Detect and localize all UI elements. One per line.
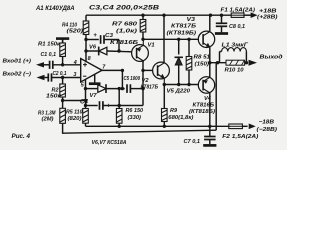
label output [260, 55, 283, 61]
node V5 bottom [177, 83, 180, 86]
node output junction [208, 61, 211, 64]
node L1 left [216, 61, 219, 64]
svg-text:(1,0к): (1,0к) [116, 28, 137, 34]
wire C4 left [86, 105, 98, 107]
node V6-C3 join [117, 49, 120, 52]
svg-text:V5 Д220: V5 Д220 [167, 88, 191, 94]
node output corner [121, 69, 124, 72]
wire output [101, 69, 122, 71]
label C4 [80, 98, 89, 105]
label V7 [90, 93, 98, 99]
wire output bus [210, 62, 226, 64]
wire V4 emitter [209, 63, 211, 78]
fuse F1 [231, 13, 244, 17]
node R2-input [61, 76, 64, 79]
wire rail to V2 collector [163, 15, 165, 63]
arrow input1 [36, 62, 44, 67]
svg-text:V2: V2 [142, 78, 150, 84]
wire rail to C6 [221, 15, 223, 23]
svg-text:+: + [93, 32, 97, 39]
node rail-V2c [162, 14, 165, 17]
resistor R10 [226, 60, 245, 65]
label C7 [184, 139, 201, 145]
svg-text:V6,V7 КС518А: V6,V7 КС518А [92, 140, 127, 146]
resistor R9 [162, 109, 168, 122]
wire C1 to opamp pin4 [53, 64, 81, 66]
wire C4 right [103, 105, 143, 107]
resistor R3 top lead [62, 101, 64, 109]
svg-text:(КТ818Б): (КТ818Б) [189, 109, 215, 115]
capacitor C2 [48, 73, 51, 81]
wire feedback vertical [215, 63, 217, 131]
node L1 right [245, 61, 248, 64]
node R2-R3 [61, 99, 64, 102]
node A C4 branch [118, 87, 121, 90]
op-amp A1 [81, 59, 102, 83]
node B output branch [121, 87, 124, 90]
wire C3 left [86, 39, 99, 41]
svg-text:R8 51: R8 51 [194, 54, 211, 60]
capacitor C7 [204, 137, 216, 140]
label R2 [46, 88, 62, 100]
resistor R1 lead [62, 57, 64, 65]
svg-text:V4: V4 [204, 96, 212, 102]
wire R9 to -rail [163, 122, 165, 127]
node pin5 [84, 87, 87, 90]
label V1 type [110, 40, 138, 46]
wire V4 collector [209, 93, 211, 126]
wire op-amp pin8 stub [85, 51, 87, 62]
label R8 [194, 54, 211, 67]
wire R3 to feedback line [62, 123, 64, 134]
label R10 [225, 68, 245, 74]
node X - V2 base [141, 69, 144, 72]
wire V3 emitter [209, 47, 211, 63]
label pin 4 [73, 60, 77, 66]
wire V3 collector [209, 15, 212, 31]
svg-text:(520): (520) [67, 29, 84, 35]
svg-text:А1 К140УД8А: А1 К140УД8А [35, 5, 74, 12]
wire output down to B [121, 70, 123, 88]
label V3 type [171, 24, 196, 30]
svg-text:8: 8 [88, 56, 91, 62]
svg-text:R7 680: R7 680 [112, 21, 138, 27]
svg-text:Вход2 (−): Вход2 (−) [3, 71, 32, 77]
svg-text:V6: V6 [89, 45, 97, 51]
label F2 [222, 134, 258, 140]
node rail-R6 [118, 125, 121, 128]
label V4 type [193, 102, 215, 108]
node V4c C7 [208, 125, 211, 128]
label R9 [168, 108, 193, 121]
wire R8 to bus2 [188, 70, 190, 85]
label C3 [105, 33, 114, 39]
ground below C6 [215, 32, 228, 35]
label V2 [142, 78, 150, 84]
svg-text:680(1,8к): 680(1,8к) [168, 115, 193, 121]
wire C2 to opamp pin3 [52, 77, 82, 79]
label C4 plus [107, 103, 111, 110]
svg-text:С1 0,1: С1 0,1 [41, 52, 57, 58]
svg-text:−18В: −18В [259, 119, 275, 125]
svg-text:С4: С4 [80, 98, 89, 105]
label F1 value [221, 7, 256, 13]
label R6 [126, 108, 144, 121]
label -18V [257, 119, 278, 133]
label V3 alt type [167, 30, 197, 36]
svg-text:С7 0,1: С7 0,1 [184, 139, 201, 145]
wire op-amp pin5 stub [85, 79, 87, 88]
wire feedback horizontal [63, 130, 217, 133]
node R8 bottom [187, 83, 190, 86]
svg-text:R1 150к: R1 150к [38, 41, 61, 47]
ground above R1 [56, 39, 69, 43]
resistor R5 lead [85, 106, 87, 109]
resistor R8 [186, 57, 192, 71]
label pin 3 [73, 72, 76, 78]
arrow input2 [37, 75, 45, 80]
svg-text:(КТ819Б): (КТ819Б) [167, 30, 197, 36]
wire R1 to ground [62, 40, 64, 44]
resistor R2 top lead [62, 78, 64, 85]
diode V7 [98, 84, 106, 93]
label V6 [89, 45, 97, 51]
svg-text:R3 1,3М: R3 1,3М [38, 111, 56, 117]
node R8 top [187, 38, 190, 41]
svg-text:КТ816Б: КТ816Б [193, 102, 215, 108]
label R3 [38, 111, 56, 123]
label A1 type [35, 5, 74, 12]
wire rail to R7 [142, 15, 144, 19]
label R1 [38, 41, 61, 47]
svg-text:R5 110: R5 110 [66, 110, 83, 116]
wire node X [142, 61, 144, 106]
wire R7 to V1 emitter node [142, 32, 144, 39]
wire V7 to node A [106, 88, 125, 90]
capacitor C1 [50, 61, 53, 69]
label pin 8 [88, 56, 91, 62]
svg-text:L1 3мкГ: L1 3мкГ [222, 42, 249, 48]
resistor R6 lead [118, 106, 120, 109]
ground under op-amp [89, 74, 101, 83]
svg-text:150к: 150к [46, 94, 62, 100]
node rail-V3c [209, 14, 212, 17]
label L1 [222, 42, 249, 48]
resistor R3 [60, 108, 66, 123]
node V5 top [177, 38, 180, 41]
wire C3 right [104, 39, 119, 41]
transistor V4 [198, 77, 214, 93]
capacitor C5 [127, 84, 130, 93]
label V1 [148, 43, 155, 49]
node X - C5 [141, 87, 144, 90]
label C5 [124, 76, 141, 82]
label pin 5 [81, 82, 85, 88]
wire -18V rail [86, 125, 248, 127]
svg-text:Вход1 (+): Вход1 (+) [3, 59, 32, 65]
diode V6 [99, 47, 107, 56]
node rail-R7 [141, 14, 144, 17]
wire R2R3 node to R5 node [63, 100, 86, 102]
label V6 V7 type [92, 140, 127, 146]
wire bias bus2 [164, 84, 198, 86]
resistor R1 [60, 43, 66, 57]
resistor R5 [83, 109, 89, 124]
transistor V1 [132, 39, 149, 62]
node C4-R6 [118, 104, 121, 107]
wire pin8 node to V6 [84, 40, 98, 53]
wire rail to R4 [85, 15, 87, 21]
svg-text:3: 3 [73, 72, 76, 78]
capacitor C4 [100, 101, 103, 110]
wire bias bus V1e to V3 base [143, 38, 199, 40]
node V2 emitter [163, 83, 166, 86]
arrow -18V [249, 124, 256, 130]
svg-text:КТ817Б: КТ817Б [141, 85, 159, 91]
svg-text:V7: V7 [90, 93, 98, 99]
wire C5 to node X [130, 88, 143, 90]
wire V2e down to R9 [163, 85, 165, 109]
wire input1 to C1 [44, 64, 50, 66]
label R7 [112, 21, 138, 34]
wire C3 corner down [118, 40, 120, 52]
svg-text:F2 1,5А(2А): F2 1,5А(2А) [222, 134, 258, 140]
resistor R8 top lead [188, 39, 190, 56]
label V3 [187, 17, 196, 23]
wire C7 to ground [209, 140, 211, 144]
resistor R4 [83, 21, 89, 35]
wire C6 to ground [221, 26, 223, 32]
capacitor C3 [101, 35, 104, 44]
svg-text:Рис. 4: Рис. 4 [12, 133, 31, 140]
resistor R6 [116, 109, 122, 124]
wire +18V top rail [86, 14, 251, 16]
svg-text:(−28В): (−28В) [257, 127, 278, 133]
label figure caption [12, 133, 31, 140]
svg-text:КТ816Б: КТ816Б [110, 40, 138, 46]
wire V2 base [143, 69, 153, 71]
svg-text:R2: R2 [52, 88, 60, 94]
node R9 rail [163, 125, 166, 128]
svg-text:С2 0,1: С2 0,1 [53, 71, 67, 77]
label R5 [66, 110, 83, 122]
label C3 plus [93, 32, 97, 39]
svg-text:С8 0,1: С8 0,1 [229, 24, 245, 30]
svg-text:R6 150: R6 150 [126, 108, 144, 114]
resistor R7 [140, 20, 146, 33]
wire R4 to C3 node [85, 35, 87, 40]
svg-text:+18В: +18В [259, 8, 277, 14]
svg-text:Выход: Выход [260, 55, 283, 61]
svg-text:V3: V3 [187, 17, 196, 23]
node pin5-R2R3 wire [84, 99, 87, 102]
label V4 alt type [189, 109, 215, 115]
resistor R2 [60, 84, 66, 97]
svg-text:КТ817Б: КТ817Б [171, 24, 196, 30]
transistor V3 [198, 31, 214, 47]
label C1 [41, 52, 57, 58]
wire pin5 to V7 [86, 88, 98, 90]
diode V5 [175, 39, 183, 84]
capacitor C6 [216, 23, 227, 26]
fuse F2 [229, 124, 243, 129]
svg-text:F1 1,5А(2А): F1 1,5А(2А) [221, 7, 256, 13]
svg-text:(2М): (2М) [42, 117, 54, 123]
svg-text:R9: R9 [170, 108, 178, 114]
arrow +18V [251, 12, 258, 18]
svg-text:(150): (150) [195, 61, 210, 67]
svg-text:(330): (330) [128, 115, 142, 121]
label pin 7 [102, 64, 106, 70]
svg-text:С3: С3 [105, 33, 114, 39]
svg-text:R10 10: R10 10 [225, 68, 245, 74]
transistor V2 [153, 62, 170, 84]
node R1-input [61, 63, 64, 66]
svg-text:С3,С4 200,0×25В: С3,С4 200,0×25В [89, 4, 160, 11]
svg-text:4: 4 [73, 60, 77, 66]
node R4-C3 [84, 38, 87, 41]
svg-text:(+28В): (+28В) [257, 15, 278, 21]
label R4 [62, 22, 83, 34]
wire input2 to C2 [45, 77, 49, 79]
label +18V [257, 8, 278, 20]
label C3,C4 value [89, 4, 160, 11]
wire node A down [118, 89, 120, 106]
arrow output [249, 60, 258, 66]
wire R2 to node [62, 97, 64, 101]
label V5 [167, 88, 191, 94]
wire R5 to -rail [85, 123, 87, 126]
node rail-C6 [220, 14, 223, 17]
svg-text:V1: V1 [148, 43, 155, 49]
label C2 [53, 71, 67, 77]
wire R6 to -rail [118, 123, 120, 126]
svg-text:С5 1000: С5 1000 [124, 76, 141, 82]
label Vhod2 [3, 71, 32, 77]
label V2 type [141, 85, 159, 91]
svg-text:(820): (820) [68, 116, 82, 122]
node C4 left [84, 104, 87, 107]
wire -rail to C7 [209, 126, 211, 136]
wire V6 to V1 base [107, 50, 132, 53]
inductor L1 [220, 48, 247, 63]
ground below C7 [203, 144, 216, 147]
wire pin5 down to C4 wire [85, 89, 87, 106]
label V4 [204, 96, 212, 102]
node V1 emitter [141, 38, 144, 41]
label C6 [229, 24, 245, 30]
label Vhod1 [3, 59, 32, 65]
wire R10 to arrow [245, 62, 248, 64]
svg-text:R4 110: R4 110 [62, 22, 78, 28]
